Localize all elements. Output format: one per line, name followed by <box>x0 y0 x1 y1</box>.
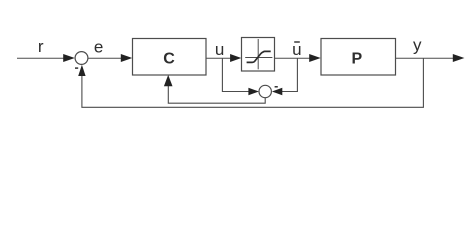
arrowhead into block C <box>121 54 132 62</box>
svg-text:e: e <box>94 38 103 57</box>
svg-text:P: P <box>351 50 362 67</box>
svg-text:u: u <box>215 40 224 59</box>
saturation symbol: vertical axis <box>257 39 259 69</box>
wire: reference input r <box>17 57 66 59</box>
minus sign at S2 (u-bar input) <box>275 86 278 88</box>
arrowhead into saturation block <box>230 54 241 62</box>
saturation block (actuator limit) <box>242 38 275 72</box>
svg-text:y: y <box>413 35 422 54</box>
arrowhead right into S2 <box>248 88 259 96</box>
svg-text:u: u <box>292 40 301 59</box>
output arrowhead <box>453 54 465 62</box>
wire: plant output y <box>396 57 457 59</box>
summing junction S2 (anti-windup) <box>259 85 271 97</box>
arrowhead up into S1 <box>78 65 85 76</box>
macron of u-bar <box>294 41 300 43</box>
minus sign at S1 (feedback input) <box>75 67 78 69</box>
wire: branch of u-bar down into S2 <box>281 58 297 92</box>
arrowhead left into S2 <box>272 88 282 96</box>
wire: error signal e <box>88 57 123 59</box>
summing junction S1 <box>75 52 88 65</box>
wire: saturated output u-bar <box>275 57 313 59</box>
saturation symbol: horizontal axis <box>245 57 272 59</box>
wire: branch of u down into S2 <box>222 58 250 92</box>
saturation symbol: limit curve <box>247 51 271 62</box>
arrowhead into summing junction S1 <box>63 54 75 62</box>
arrowhead up into C <box>164 75 173 86</box>
svg-text:C: C <box>163 51 175 68</box>
svg-text:r: r <box>38 37 44 56</box>
arrowhead into block P <box>309 54 321 62</box>
block C (controller) <box>133 39 207 76</box>
wire: S2 output back into C (anti-windup feedback) <box>168 85 265 104</box>
wire: outer feedback from y to S1 <box>82 58 424 107</box>
wire: controller output u <box>206 57 233 59</box>
block P (plant) <box>321 39 396 76</box>
